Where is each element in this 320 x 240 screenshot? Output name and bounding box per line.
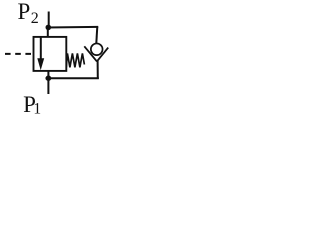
svg-text:2: 2 [31, 10, 39, 27]
node top junction dot [46, 25, 52, 31]
valve flow path arrow line [40, 37, 42, 60]
valve flow path arrowhead [37, 58, 44, 70]
node P2 label [18, 0, 39, 27]
node P1 label [23, 92, 41, 118]
pilot dashed line [5, 53, 33, 55]
svg-text:P: P [18, 0, 31, 24]
check valve ball [91, 43, 103, 55]
check valve seat left arm [84, 46, 97, 61]
node bottom junction dot [46, 75, 52, 81]
wire P2 stub [48, 12, 50, 28]
svg-text:1: 1 [33, 101, 41, 117]
wire check valve top drop [96, 26, 97, 43]
wire P1 stub [47, 71, 49, 94]
wire top horizontal [46, 26, 98, 29]
valve envelope U1 [34, 37, 67, 71]
wire valve top entry drop [47, 27, 49, 37]
check valve seat right arm [97, 48, 108, 62]
spring [66, 53, 84, 67]
wire check valve bottom drop [97, 61, 99, 79]
wire bottom horizontal [46, 77, 99, 79]
